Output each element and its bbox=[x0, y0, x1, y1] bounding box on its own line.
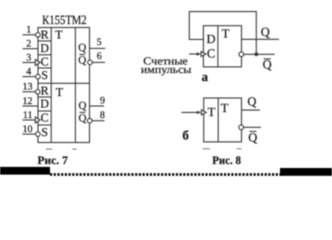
bottom border: left black bar bbox=[0, 167, 50, 175]
svg-text:5: 5 bbox=[97, 37, 102, 48]
inversion bubble Q1-bar output pin 6 bbox=[88, 60, 93, 65]
svg-text:8: 8 bbox=[100, 110, 105, 121]
svg-text:К155ТМ2: К155ТМ2 bbox=[42, 13, 87, 27]
svg-text:10: 10 bbox=[23, 124, 33, 135]
svg-text:R: R bbox=[41, 28, 49, 42]
inversion bubble R1 input pin 1 bbox=[36, 33, 41, 38]
overline of Q2-bar bbox=[80, 111, 86, 113]
svg-text:11: 11 bbox=[23, 110, 33, 121]
dynamic input triangle C1 pin 3 bbox=[35, 60, 40, 66]
svg-text:6: 6 bbox=[97, 51, 102, 62]
flip-flop U3 T-type body (fig b) bbox=[204, 98, 242, 142]
wire T input (fig b) bbox=[181, 111, 197, 113]
wire feedback loop Qbar to D (fig a) bbox=[189, 12, 256, 55]
svg-text:Q: Q bbox=[263, 57, 272, 71]
IC U1 К155ТМ2 dual D flip-flop body bbox=[38, 28, 90, 143]
svg-text:T: T bbox=[221, 101, 229, 115]
svg-text:Q: Q bbox=[261, 25, 270, 39]
svg-text:9: 9 bbox=[100, 95, 105, 106]
dynamic input triangle T (fig b) bbox=[201, 110, 206, 115]
inversion bubble S1 input pin 4 bbox=[36, 74, 41, 79]
svg-text:13: 13 bbox=[23, 82, 33, 93]
arrowhead on T input wire (fig b) bbox=[197, 111, 202, 114]
inversion bubble Qbar output (fig b) bbox=[239, 125, 244, 130]
svg-text:Q: Q bbox=[78, 42, 86, 54]
svg-text:T: T bbox=[55, 28, 63, 42]
junction node Qbar-D feedback (fig a) bbox=[254, 52, 258, 56]
svg-text:б: б bbox=[182, 127, 189, 142]
overline of Q1-bar bbox=[79, 54, 85, 56]
svg-text:T: T bbox=[208, 105, 216, 119]
wire C input (fig a) bbox=[189, 53, 197, 55]
wire pin 10 bbox=[23, 133, 36, 135]
arrowhead on C input wire (fig a) bbox=[197, 52, 202, 55]
svg-text:Q: Q bbox=[78, 55, 86, 67]
svg-text:D: D bbox=[40, 41, 49, 55]
wire pin 2 bbox=[23, 48, 39, 50]
overline of Qbar label (fig a) bbox=[264, 58, 271, 60]
stray dash marks under blocks bbox=[46, 148, 242, 150]
svg-text:Рис. 7: Рис. 7 bbox=[37, 155, 68, 167]
svg-text:C: C bbox=[41, 55, 49, 69]
svg-text:Q: Q bbox=[247, 94, 256, 108]
dynamic input triangle C (fig a) bbox=[201, 52, 206, 57]
inversion bubble S2 input pin 10 bbox=[36, 132, 41, 137]
svg-text:Q: Q bbox=[248, 130, 257, 144]
svg-text:Q: Q bbox=[79, 100, 87, 112]
inversion bubble Q2-bar output pin 8 bbox=[87, 118, 92, 123]
svg-text:импульсы: импульсы bbox=[141, 64, 192, 76]
wire Qbar output (fig b) bbox=[244, 126, 261, 128]
wire pin 8 bbox=[92, 120, 105, 122]
svg-text:Q: Q bbox=[79, 112, 87, 124]
svg-text:C: C bbox=[41, 111, 49, 125]
dynamic input triangle C2 pin 11 bbox=[35, 117, 40, 123]
svg-text:T: T bbox=[56, 85, 64, 99]
bottom border: dotted middle segment bbox=[50, 173, 282, 176]
svg-text:12: 12 bbox=[23, 96, 33, 107]
inversion bubble R2 input pin 13 bbox=[35, 90, 40, 95]
svg-text:1: 1 bbox=[26, 25, 31, 36]
svg-text:S: S bbox=[41, 68, 48, 82]
svg-text:C: C bbox=[207, 47, 215, 61]
svg-text:3: 3 bbox=[26, 52, 31, 63]
svg-text:2: 2 bbox=[26, 39, 31, 50]
svg-text:S: S bbox=[41, 125, 48, 139]
inversion bubble Qbar output (fig a) bbox=[239, 52, 244, 57]
svg-text:R: R bbox=[41, 84, 49, 98]
flip-flop U2 D-type body (fig a) bbox=[203, 26, 241, 67]
wire pin 12 bbox=[23, 105, 39, 107]
svg-text:а: а bbox=[202, 69, 209, 84]
wire Qbar output (fig a) bbox=[244, 53, 275, 55]
wire pin 3 bbox=[23, 62, 36, 64]
wire pin 4 bbox=[23, 76, 36, 78]
wire pin 11 bbox=[23, 119, 36, 121]
svg-text:D: D bbox=[40, 97, 49, 111]
svg-text:4: 4 bbox=[26, 66, 31, 77]
wire pin 5 bbox=[90, 47, 106, 49]
wire pin 13 bbox=[23, 91, 36, 93]
overline of Qbar label (fig b) bbox=[250, 130, 257, 132]
svg-text:Рис. 8: Рис. 8 bbox=[212, 155, 241, 167]
wire pin 1 bbox=[23, 34, 36, 36]
svg-text:D: D bbox=[206, 32, 215, 46]
svg-text:T: T bbox=[222, 26, 230, 40]
bottom border: right black bar bbox=[280, 168, 332, 176]
wire Q output (fig a) bbox=[242, 38, 280, 40]
wire pin 9 bbox=[90, 105, 105, 107]
wire pin 6 bbox=[92, 61, 105, 63]
wire Q output (fig b) bbox=[242, 109, 261, 111]
